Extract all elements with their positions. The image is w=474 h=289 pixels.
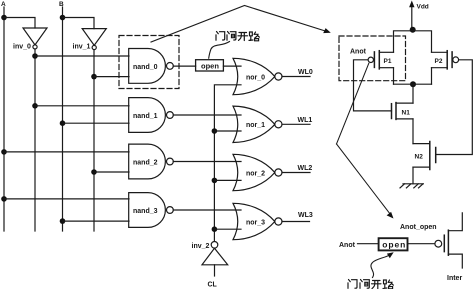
- wire inv_0 to nand_0 input a: [35, 55, 129, 57]
- wire WL0: [282, 76, 310, 78]
- svg-text:nand_2: nand_2: [133, 159, 158, 166]
- wire inv_0 output vertical: [34, 49, 36, 231]
- svg-text:Vdd: Vdd: [417, 4, 429, 11]
- junction CL row3: [212, 226, 218, 232]
- nand gate nand_0: [129, 49, 174, 84]
- svg-text:P1: P1: [384, 58, 392, 65]
- wire CL to nor_1 input b: [214, 130, 241, 132]
- wire open box to nor_0 input a: [223, 65, 241, 67]
- wire common CL line vertical: [214, 85, 241, 242]
- char 间: [227, 32, 236, 41]
- wire inv_1 to nand_0 input b: [94, 76, 129, 78]
- nmos N2: [413, 142, 436, 170]
- svg-text:N1: N1: [402, 109, 411, 116]
- svg-text:nand_3: nand_3: [133, 208, 158, 215]
- wire B to inv_1 input: [63, 18, 95, 29]
- char 路: [383, 280, 393, 289]
- svg-text:Inter: Inter: [447, 275, 462, 282]
- nmos N1: [392, 103, 414, 120]
- wire P1 P2 sources rail: [394, 83, 432, 85]
- inverter inv_1: [73, 29, 107, 51]
- char 门: [348, 280, 357, 289]
- wire B to nand_3 input b: [63, 220, 130, 222]
- junction B row3: [60, 218, 66, 224]
- wire A to nand_2 input a: [4, 151, 129, 153]
- svg-text:WL1: WL1: [298, 117, 313, 124]
- inverter inv_2: [192, 242, 228, 265]
- wire A vertical: [3, 7, 5, 231]
- junction A row3: [1, 196, 7, 202]
- junction A row2: [1, 149, 7, 155]
- svg-text:WL2: WL2: [298, 165, 313, 172]
- svg-text:Anot_open: Anot_open: [400, 224, 437, 231]
- wire inv_1 output vertical: [93, 50, 95, 231]
- svg-text:nor_2: nor_2: [246, 170, 265, 177]
- wire nand_0 output to open box: [173, 65, 195, 67]
- wire WL2: [282, 172, 310, 174]
- char 门: [216, 32, 225, 41]
- nor gate nor_2: [233, 154, 282, 190]
- junction Vdd rail: [410, 27, 416, 33]
- svg-text:nor_0: nor_0: [246, 74, 265, 81]
- char 开: [372, 281, 382, 289]
- junction B row1: [60, 120, 66, 126]
- junction CL row2: [212, 178, 218, 184]
- nor gate nor_0: [233, 58, 282, 94]
- wire N2 source to ground: [412, 167, 414, 184]
- nor gate nor_3: [233, 203, 282, 239]
- wire nand_3 output to nor_3: [173, 209, 241, 211]
- dashed box around Anot and P1 gate: [339, 36, 406, 81]
- svg-text:inv_1: inv_1: [73, 44, 91, 51]
- svg-text:Anot: Anot: [339, 242, 356, 249]
- svg-text:CL: CL: [208, 282, 218, 289]
- wire inv_1 to nand_2 input b: [94, 171, 129, 173]
- junction inv_1 row0: [91, 74, 97, 80]
- svg-text:nor_1: nor_1: [246, 122, 265, 129]
- svg-text:inv_0: inv_0: [13, 44, 31, 51]
- svg-text:open: open: [201, 62, 219, 71]
- callout arrow elbow to Anot_open: [337, 144, 394, 219]
- wire CL to nor_3 input b: [214, 228, 241, 230]
- wire Anot to P1 gate and N1 gate: [354, 60, 392, 111]
- ground: [400, 184, 423, 188]
- wire CL input: [214, 265, 216, 276]
- wire B to nand_1 input b: [63, 122, 130, 124]
- dashed box around nand_0: [119, 36, 179, 89]
- open fault box row0: [196, 60, 224, 71]
- wire inv_0 to nand_1 input a: [35, 105, 129, 107]
- inverter inv_0: [13, 28, 47, 51]
- svg-text:WL3: WL3: [298, 212, 313, 219]
- svg-text:WL0: WL0: [298, 69, 313, 76]
- callout curve to open box: [209, 42, 230, 59]
- svg-text:nor_3: nor_3: [246, 219, 265, 226]
- svg-text:open: open: [382, 240, 406, 250]
- open fault box bottom: [379, 238, 408, 250]
- junction inv_1 row2: [91, 169, 97, 175]
- wire A to inv_0 input: [4, 18, 35, 29]
- junction B top: [60, 15, 66, 21]
- wire WL3: [282, 221, 310, 223]
- callout text 门间开路 bottom: [348, 280, 393, 289]
- wire open box to Inter transistor gate: [408, 243, 435, 245]
- char 间: [360, 280, 369, 289]
- svg-text:B: B: [59, 1, 64, 8]
- junction inv_0 row0: [32, 53, 38, 59]
- junction P1 P2 common node: [410, 81, 416, 87]
- nand gate nand_2: [129, 144, 174, 179]
- pmos P1: [368, 51, 393, 84]
- junction inv_0 row1: [32, 103, 38, 109]
- svg-text:N2: N2: [415, 153, 424, 160]
- char 开: [238, 33, 248, 41]
- callout text 门间开路 upper: [216, 32, 259, 41]
- nand gate nand_3: [129, 193, 174, 228]
- wire P2 gate to N2 gate: [436, 60, 473, 155]
- svg-text:P2: P2: [435, 58, 443, 65]
- wire Anot to open box: [358, 243, 379, 245]
- wire WL1: [282, 123, 310, 125]
- callout arrow big V to right circuit: [151, 6, 331, 43]
- callout curve to bottom open box: [371, 252, 394, 277]
- power Vdd arrow: [409, 1, 429, 30]
- svg-text:Anot: Anot: [350, 49, 367, 56]
- junction CL row1: [212, 128, 218, 134]
- nor gate nor_1: [233, 106, 282, 142]
- svg-text:inv_2: inv_2: [192, 243, 210, 250]
- svg-text:nand_0: nand_0: [133, 64, 158, 71]
- wire Vdd rail to P1 P2: [394, 31, 432, 52]
- wire nand_2 output to nor_2: [173, 161, 241, 163]
- wire common node down to N1: [412, 84, 414, 103]
- pmos pass transistor Inter: [435, 213, 463, 282]
- wire nand_1 output to nor_1: [173, 114, 241, 116]
- char 路: [249, 32, 259, 41]
- svg-text:nand_1: nand_1: [133, 113, 158, 120]
- wire B vertical: [62, 7, 64, 231]
- wire A to nand_3 input a: [4, 198, 129, 200]
- wire N1 source to N2 drain: [412, 119, 414, 144]
- nand gate nand_1: [129, 98, 174, 133]
- junction A top: [1, 15, 7, 21]
- callout line Anot to elbow: [337, 63, 369, 144]
- wire CL to nor_2 input b: [214, 179, 241, 181]
- pmos P2: [432, 51, 459, 84]
